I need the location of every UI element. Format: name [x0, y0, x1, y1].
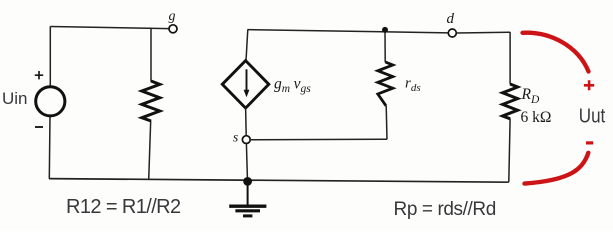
- resistor rds: [378, 62, 393, 106]
- red brace lower arc (output marking): [525, 153, 589, 184]
- wire: left branch vertical below Uin source: [48, 117, 51, 179]
- dependent current source gm*vgs (diamond): [222, 61, 268, 109]
- wire: bottom rail (ground net): [49, 179, 509, 183]
- junction dot (drain node on top rail): [382, 27, 388, 33]
- wire: rds top stub: [384, 30, 386, 62]
- wire: d terminal to top-right corner: [456, 31, 510, 34]
- wire: s node horizontal to rds bottom: [250, 138, 387, 141]
- svg-text:Uut: Uut: [579, 104, 606, 127]
- wire: right branch vertical above RD: [509, 32, 511, 84]
- svg-text:Uin: Uin: [2, 89, 28, 108]
- svg-text:R12 = R1//R2: R12 = R1//R2: [66, 196, 181, 218]
- ground stem: [247, 183, 249, 205]
- wire: left branch vertical above Uin source: [49, 26, 51, 86]
- svg-text:d: d: [447, 11, 455, 27]
- svg-text:6 kΩ: 6 kΩ: [521, 109, 552, 126]
- wire: R12 bottom stub: [149, 121, 151, 180]
- terminal g: [169, 25, 177, 33]
- wire: stub from top rail down to current-source diamond: [246, 29, 248, 61]
- wire: stub from diamond bottom to s terminal: [245, 108, 248, 136]
- wire: top-left rail from Uin to g terminal: [51, 27, 169, 29]
- red brace upper arc (output marking): [523, 33, 589, 72]
- wire: s terminal down to bottom rail: [246, 144, 247, 182]
- plus mark of Uin: [35, 71, 43, 79]
- svg-text:Rp = rds//Rd: Rp = rds//Rd: [394, 199, 496, 220]
- svg-text:g: g: [169, 9, 176, 24]
- wire: middle loop top rail: [248, 30, 448, 33]
- svg-text:RD: RD: [521, 86, 540, 106]
- svg-text:s: s: [233, 130, 238, 145]
- red minus sign (output polarity): [586, 141, 593, 144]
- terminal d: [448, 29, 456, 37]
- arrow inside current source (pointing down): [246, 69, 248, 91]
- resistor R12: [142, 81, 160, 121]
- minus mark of Uin: [35, 126, 43, 128]
- voltage source Uin: [36, 87, 65, 116]
- wire: R12 top stub: [150, 28, 152, 82]
- ground bar 3: [243, 214, 252, 217]
- resistor RD: [503, 84, 518, 119]
- ground bar 2: [235, 209, 260, 212]
- junction dot (ground node on bottom rail): [243, 177, 252, 186]
- wire: rds bottom stub: [385, 106, 388, 140]
- ground bar 1: [229, 204, 266, 207]
- svg-text:rds: rds: [405, 76, 421, 95]
- terminal s: [242, 136, 250, 144]
- wire: right branch vertical below RD: [509, 119, 510, 183]
- svg-text:gmvgs: gmvgs: [274, 76, 311, 96]
- red plus sign (output polarity): [584, 80, 594, 90]
